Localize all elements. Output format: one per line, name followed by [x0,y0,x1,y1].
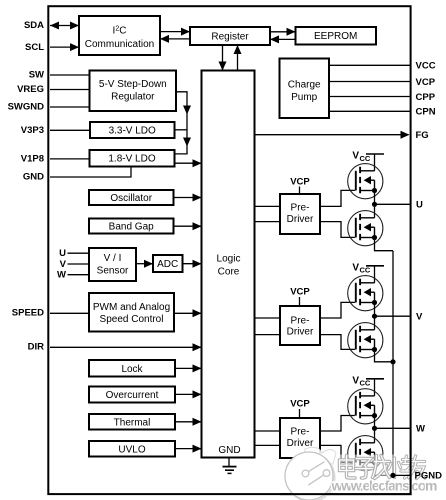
node VCP W [290,399,310,418]
svg-text:V: V [60,259,67,270]
svg-text:V: V [352,375,359,386]
wire Overcurrent to Logic Core [175,390,202,398]
svg-text:CC: CC [360,266,371,275]
wire U high source to node [374,191,376,205]
svg-text:Pre-: Pre- [291,316,310,327]
svg-text:Oscillator: Oscillator [110,193,152,204]
node U phase [372,200,423,211]
pin SW [29,70,90,81]
svg-text:Thermal: Thermal [114,417,151,428]
wire V high source to node [374,303,376,317]
svg-text:CPN: CPN [416,107,436,118]
wire I2C to Register [160,28,190,36]
node VCP V [290,286,310,306]
svg-text:PWM and Analog: PWM and Analog [93,302,170,313]
wire V low source to bus [375,350,394,362]
watermark url backing [331,481,439,494]
svg-text:VCP: VCP [416,77,436,88]
block Pre-Driver W [280,418,320,458]
block Lock [89,360,175,377]
wire Logic Core to Pre-Driver U high [255,205,281,207]
svg-text:V / I: V / I [104,253,122,264]
wire Thermal to Logic Core [175,418,202,426]
block Band Gap [89,219,174,234]
block Thermal [89,414,175,430]
wire Band Gap to Logic Core [174,222,202,230]
svg-text:1.8-V LDO: 1.8-V LDO [108,154,155,165]
transistor U low [348,204,383,245]
svg-text:Sensor: Sensor [97,266,129,277]
block Logic Core [202,71,255,458]
block UVLO [89,441,175,457]
svg-text:Overcurrent: Overcurrent [106,390,159,401]
block I2C Communication [79,16,160,55]
node VCC U [352,151,384,171]
pin SCL [25,42,79,53]
node PGND [390,471,442,482]
node V sense [60,259,89,270]
svg-text:Core: Core [218,267,240,278]
svg-text:CC: CC [360,379,371,388]
svg-text:Lock: Lock [121,364,143,375]
svg-text:3.3-V LDO: 3.3-V LDO [109,126,156,137]
node VCC V [352,262,384,282]
svg-text:U: U [59,248,66,259]
svg-text:VCP: VCP [290,286,310,297]
block V/I Sensor [89,248,136,281]
pin SPEED [12,307,89,318]
svg-text:V: V [416,311,423,322]
wire W high source to node [374,416,376,429]
node VCC W [352,375,384,396]
svg-text:FG: FG [416,130,429,141]
svg-text:GND: GND [218,445,240,456]
block Register [190,27,270,45]
svg-text:V: V [352,262,359,273]
svg-text:Speed Control: Speed Control [100,314,164,325]
pin SDA [24,20,79,31]
block Pre-Driver U [280,194,320,234]
svg-text:Register: Register [211,32,249,43]
block 5-V Step-Down Regulator [90,71,177,112]
svg-text:5-V Step-Down: 5-V Step-Down [99,79,167,90]
wire Register to I2C [160,35,190,43]
wire Oscillator to Logic Core [174,194,202,202]
block EEPROM [296,27,377,45]
svg-text:Pump: Pump [291,92,318,103]
wire V/I Sensor to ADC [136,260,153,268]
wire Register to EEPROM [270,28,296,36]
wire PWM to Logic Core [174,309,202,317]
transistor W low [348,428,383,471]
block PWM and Analog Speed Control [89,293,174,332]
svg-text:CPP: CPP [416,92,436,103]
wire U low source to bus [375,238,394,251]
svg-text:SCL: SCL [25,42,44,53]
watermark glyph you [409,456,426,479]
wire CPN [329,107,436,118]
transistor V low [348,316,383,358]
wire Lock to Logic Core [175,364,202,372]
block Oscillator [89,190,174,205]
transistor W high [348,389,383,424]
wire VCC [329,61,436,72]
watermark glyph shao [389,456,415,478]
node W sense [57,270,89,281]
svg-text:GND: GND [23,172,44,183]
svg-text:SPEED: SPEED [12,307,44,318]
wire Logic Core to Pre-Driver U low [255,221,281,223]
pin GND [23,167,131,183]
wire gate U low [320,222,355,238]
block Pre-Driver V [280,306,320,345]
svg-text:UVLO: UVLO [118,444,145,455]
watermark glyph zi [356,459,373,479]
node U sense [59,248,89,259]
svg-text:VREG: VREG [17,84,44,95]
svg-text:Pre-: Pre- [291,427,310,438]
transistor U high [348,164,383,199]
node V source junction [390,359,395,364]
svg-text:Communication: Communication [85,39,154,50]
wire border bottom right redraw [280,440,411,494]
block ADC [153,255,183,272]
block Charge Pump [280,59,330,119]
ground [223,458,237,474]
wire Logic Core to Pre-Driver V high [255,317,281,319]
node VCP U [290,176,310,194]
wire gate V high [320,302,355,318]
wire UVLO to Logic Core [175,445,202,453]
block 1.8-V LDO [90,150,175,167]
svg-text:Charge: Charge [288,80,321,91]
svg-text:V: V [352,151,359,162]
block 3.3-V LDO [90,122,175,138]
pin SWGND [8,102,90,113]
svg-text:PGND: PGND [415,471,443,482]
wire gate V low [320,335,355,350]
pin DIR [28,341,202,352]
svg-text:W: W [416,424,425,435]
watermark glyph dian [340,456,356,479]
node V phase [372,311,423,322]
svg-text:Logic: Logic [217,254,241,265]
svg-text:W: W [57,270,66,281]
svg-text:Regulator: Regulator [111,92,155,103]
pin V3P3 [21,125,90,136]
wire Logic Core to Pre-Driver V low [255,334,281,336]
svg-text:SW: SW [29,70,44,81]
watermark glyph fa [373,456,390,479]
svg-text:CC: CC [360,154,371,163]
chip outline [48,6,410,494]
wire Register to Logic Core [219,45,227,71]
svg-text:VCP: VCP [290,399,310,410]
wire Logic Core to Pre-Driver W low [255,444,281,446]
svg-text:SDA: SDA [24,20,44,31]
wire 1.8-V LDO to Logic Core [175,159,202,167]
watermark badge [285,452,335,500]
wire EEPROM to Register [270,35,296,43]
svg-text:I2C: I2C [113,26,127,37]
watermark badge tail [303,447,336,464]
svg-text:EEPROM: EEPROM [314,31,357,42]
svg-text:ADC: ADC [157,259,178,270]
svg-text:Driver: Driver [287,327,314,338]
svg-text:VCC: VCC [416,61,436,72]
svg-text:Pre-: Pre- [291,203,310,214]
wire CPP [329,92,436,103]
wire Logic Core to Pre-Driver W high [255,430,281,432]
wire Logic Core to Register [234,45,242,71]
svg-text:DIR: DIR [28,341,45,352]
wire gate W high [320,416,355,432]
svg-text:Driver: Driver [287,214,314,225]
wire gate W low [320,445,355,462]
svg-text:V1P8: V1P8 [21,153,44,164]
svg-text:Band Gap: Band Gap [109,222,154,233]
transistor V high [348,276,383,311]
svg-text:U: U [416,200,423,211]
svg-text:V3P3: V3P3 [21,125,44,136]
watermark glyph backing [336,455,427,481]
svg-text:SWGND: SWGND [8,102,45,113]
wire ADC to Logic Core [183,260,202,268]
block Overcurrent [89,387,175,403]
node W phase [372,424,425,435]
wire W low source to PGND [375,463,394,476]
wire FG [255,130,429,141]
wire gate U high [320,190,355,206]
pin V1P8 [21,153,90,164]
wire source bus [392,251,394,476]
pin VREG [17,84,89,95]
wire regulator chain [175,92,192,154]
wire VCP [329,77,436,88]
svg-text:VCP: VCP [290,176,310,187]
